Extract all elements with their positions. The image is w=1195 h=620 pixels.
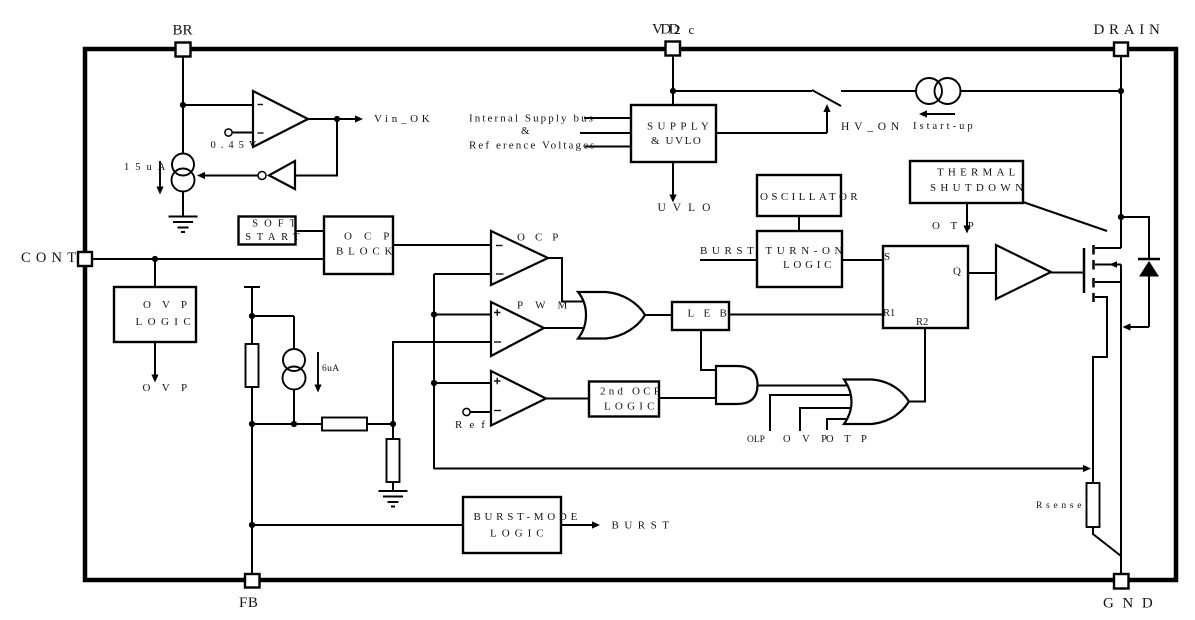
- svg-text:LOGIC: LOGIC: [783, 259, 835, 271]
- svg-text:6uA: 6uA: [322, 364, 340, 374]
- svg-text:Ref: Ref: [455, 419, 492, 431]
- svg-text:CONT: CONT: [21, 250, 81, 266]
- svg-text:OVP: OVP: [143, 299, 198, 311]
- svg-text:2: 2: [674, 22, 681, 37]
- svg-text:BLOCK: BLOCK: [336, 246, 397, 258]
- svg-text:Rsense: Rsense: [1036, 501, 1085, 511]
- svg-text:BURST TURN-ON: BURST TURN-ON: [700, 245, 847, 257]
- svg-text:SUPPLY: SUPPLY: [647, 121, 713, 133]
- svg-text:&: &: [521, 125, 530, 137]
- svg-text:c: c: [689, 22, 695, 37]
- svg-text:SHUTDOWN: SHUTDOWN: [930, 182, 1027, 194]
- svg-text:OCP: OCP: [517, 232, 568, 244]
- svg-text:OTP: OTP: [932, 220, 984, 232]
- svg-text:Vin_OK: Vin_OK: [374, 113, 433, 125]
- svg-text:0.45V: 0.45V: [211, 140, 262, 151]
- svg-text:Istart-up: Istart-up: [913, 121, 976, 132]
- svg-text:OSCILLATOR: OSCILLATOR: [760, 191, 861, 203]
- svg-text:BR: BR: [173, 23, 193, 39]
- svg-text:BURST: BURST: [612, 520, 675, 532]
- svg-text:15uA: 15uA: [124, 162, 171, 173]
- svg-text:OTP: OTP: [826, 434, 877, 445]
- svg-text:& UVLO: & UVLO: [651, 135, 702, 147]
- svg-text:START: START: [245, 232, 305, 243]
- svg-text:SOFT: SOFT: [252, 219, 302, 230]
- svg-text:LOGIC: LOGIC: [490, 528, 549, 540]
- svg-text:R2: R2: [916, 317, 928, 328]
- svg-text:LEB: LEB: [688, 308, 737, 320]
- svg-text:Ref erence Voltages: Ref erence Voltages: [469, 140, 596, 152]
- svg-text:LOGIC: LOGIC: [604, 401, 659, 413]
- svg-text:R1: R1: [883, 308, 895, 319]
- svg-text:PWM: PWM: [517, 300, 579, 312]
- svg-text:Q: Q: [953, 266, 961, 278]
- svg-text:BURST-MODE: BURST-MODE: [474, 511, 582, 523]
- svg-text:FB: FB: [239, 595, 258, 611]
- svg-text:LOGIC: LOGIC: [136, 316, 197, 328]
- svg-text:2nd OCP: 2nd OCP: [600, 386, 663, 398]
- svg-text:OCP: OCP: [344, 231, 401, 243]
- svg-text:OLP: OLP: [747, 435, 765, 445]
- svg-text:DRAIN: DRAIN: [1094, 22, 1165, 38]
- svg-text:THERMAL: THERMAL: [937, 167, 1020, 179]
- svg-text:GND: GND: [1103, 596, 1161, 612]
- svg-text:HV_ON: HV_ON: [841, 121, 904, 133]
- svg-text:UVLO: UVLO: [658, 202, 718, 214]
- svg-text:S: S: [884, 251, 890, 263]
- svg-text:OVP: OVP: [143, 382, 199, 394]
- svg-text:Internal Supply bus: Internal Supply bus: [469, 113, 595, 125]
